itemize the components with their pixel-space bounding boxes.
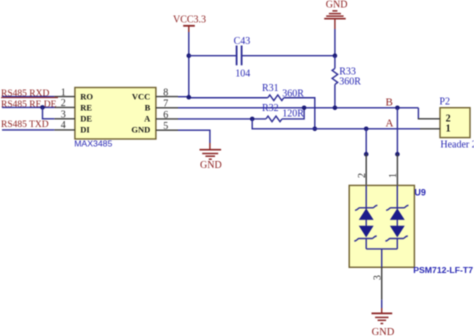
- wire U9 bottom join: [366, 248, 397, 250]
- power port GND mid stem: [209, 143, 211, 150]
- svg-text:C43: C43: [234, 36, 251, 47]
- TVS U9 body: [349, 185, 414, 267]
- wire RS485 RXD to pin 1: [2, 96, 54, 98]
- power port GND bottom stem: [381, 308, 383, 313]
- svg-text:2: 2: [61, 98, 66, 109]
- svg-text:P2: P2: [439, 97, 450, 108]
- power port GND bottom bars: [372, 313, 393, 323]
- wire pin 7 B line: [178, 107, 418, 109]
- svg-text:GND: GND: [326, 0, 348, 10]
- pin 3 stub: [54, 118, 75, 120]
- svg-text:B: B: [145, 102, 151, 112]
- svg-text:2: 2: [357, 173, 368, 178]
- svg-text:5: 5: [163, 121, 168, 132]
- svg-text:GND: GND: [372, 327, 395, 336]
- junction GND/C43/R33: [333, 53, 338, 58]
- svg-text:R31: R31: [262, 83, 279, 94]
- TVS U9 right column: diode pair: [385, 185, 408, 249]
- IC U? MAX3485 body: [75, 88, 156, 140]
- svg-text:DE: DE: [80, 114, 92, 124]
- wire A line to U9 pin 2: [365, 129, 367, 154]
- wire C43 right to GND stem: [242, 55, 335, 57]
- wire RS485 TXD to pin 4: [2, 129, 54, 131]
- svg-text:GND: GND: [131, 125, 150, 135]
- junction U9 pin2 wire: [364, 152, 369, 157]
- svg-text:B: B: [386, 96, 393, 108]
- resistor R31: [268, 95, 284, 101]
- svg-text:3: 3: [373, 275, 384, 280]
- power port GND top stem: [334, 19, 336, 29]
- svg-text:360R: 360R: [339, 77, 361, 88]
- wire pin 8 VCC run to R31: [178, 96, 190, 98]
- pin 2 stub: [54, 106, 75, 108]
- wire VCC to C43 left: [189, 55, 237, 57]
- junction R32/B: [302, 106, 307, 111]
- svg-text:MAX3485: MAX3485: [74, 139, 112, 149]
- svg-text:104: 104: [235, 69, 250, 80]
- pin 7 stub: [156, 107, 178, 109]
- junction VCC top: [187, 53, 192, 58]
- svg-text:VCC3.3: VCC3.3: [173, 15, 206, 26]
- net label RS485 RE DE with overline: [1, 98, 58, 110]
- svg-text:VCC: VCC: [132, 91, 150, 101]
- svg-text:R32: R32: [262, 103, 279, 114]
- svg-text:PSM712-LF-T7: PSM712-LF-T7: [413, 265, 473, 275]
- pin 4 stub: [54, 129, 75, 131]
- power port GND mid bars: [200, 150, 222, 160]
- TVS U9 left column: diode pair: [354, 185, 377, 249]
- svg-text:1: 1: [388, 173, 399, 178]
- wire GND top to junction: [334, 29, 336, 56]
- svg-text:U9: U9: [414, 187, 426, 197]
- pin 6 stub: [156, 118, 178, 120]
- power port GND top bars: [324, 11, 346, 19]
- junction VCC pin8: [187, 95, 192, 100]
- wire VCC vertical: [188, 32, 190, 98]
- pin 1 stub: [54, 96, 75, 98]
- pin 5 stub: [156, 129, 178, 131]
- svg-text:1: 1: [61, 87, 66, 98]
- svg-text:Header 2: Header 2: [440, 140, 474, 151]
- svg-text:A: A: [386, 118, 394, 130]
- svg-text:DI: DI: [80, 125, 90, 135]
- connector P2 body: [440, 108, 470, 138]
- junction R33/B: [333, 106, 338, 111]
- svg-text:A: A: [144, 114, 151, 124]
- U9 pin 3 stub: [381, 267, 383, 299]
- wire RS485 RE DE to pin 2: [2, 106, 54, 108]
- svg-text:GND: GND: [200, 160, 222, 171]
- svg-text:RO: RO: [80, 91, 93, 101]
- wire pin 5 to mid GND: [178, 130, 210, 143]
- junction U9 pin1 wire: [395, 152, 400, 157]
- junction A/U9: [364, 127, 369, 132]
- junction R31/A-line: [313, 127, 318, 132]
- wire R32 right up to B: [282, 108, 304, 119]
- svg-text:6: 6: [163, 110, 168, 121]
- svg-text:7: 7: [163, 99, 168, 110]
- svg-text:RS485 RE DE: RS485 RE DE: [1, 100, 57, 110]
- connector P2 pin 2 stub: [418, 118, 440, 120]
- U9 pin 2 stub: [365, 154, 367, 185]
- U9 pin 1 stub: [396, 154, 398, 185]
- svg-text:RS485 TXD: RS485 TXD: [1, 120, 49, 130]
- junction B/U9: [395, 106, 400, 111]
- wire B line to U9 pin 1: [396, 108, 398, 154]
- wire B corner to header pin 2: [417, 108, 419, 119]
- svg-text:8: 8: [163, 88, 168, 99]
- junction A/R32 left: [250, 117, 255, 122]
- resistor R33: [332, 56, 338, 108]
- wire pin 6 A to R32: [178, 118, 266, 120]
- pin 8 stub: [156, 96, 178, 98]
- capacitor C43 plates: [237, 46, 242, 66]
- power port VCC3.3 stem: [188, 26, 190, 32]
- wire A down to A-ext: [252, 119, 420, 129]
- resistor R32: [266, 116, 282, 122]
- svg-text:1: 1: [446, 124, 451, 135]
- wire R31 right down to A line: [284, 98, 315, 129]
- junction RE DE: [40, 105, 45, 110]
- svg-text:120R: 120R: [282, 109, 304, 120]
- wire U9 pin3 to GND: [381, 300, 383, 308]
- svg-text:RE: RE: [80, 102, 92, 112]
- svg-text:4: 4: [61, 120, 66, 131]
- connector P2 pin 1 stub: [420, 128, 440, 130]
- wire U9 middle stem: [381, 249, 383, 267]
- power port VCC3.3 bar: [183, 25, 195, 27]
- wire junction down to DE: [43, 107, 55, 118]
